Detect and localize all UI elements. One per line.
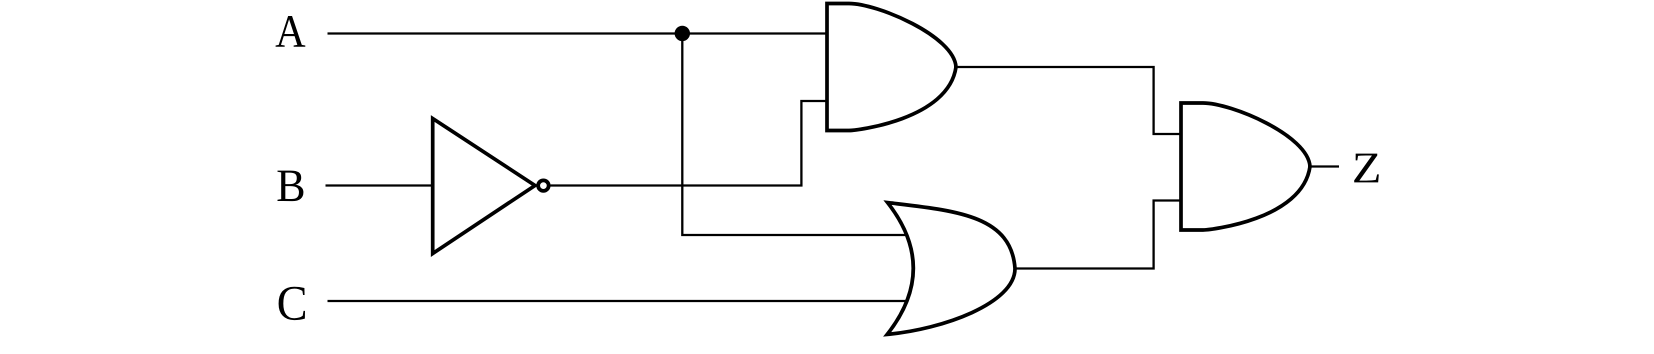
junction dot node A — [675, 26, 690, 41]
wire A — [328, 32, 829, 34]
output label Z — [1354, 154, 1379, 183]
input label C — [279, 287, 305, 320]
wire U2 output to U4 — [954, 67, 1182, 134]
AND gate U4 — [1181, 103, 1310, 230]
AND gate U2 — [827, 4, 956, 131]
inverter U1 triangle — [433, 119, 535, 254]
input label B — [278, 171, 304, 202]
wire U3 output to U4 — [1014, 201, 1182, 269]
wire branch from A to OR gate — [682, 34, 907, 236]
wire output Z — [1308, 165, 1339, 167]
input label A — [276, 16, 306, 47]
wire B — [326, 184, 435, 186]
inverter U1 bubble — [538, 180, 549, 191]
wire C — [328, 300, 908, 302]
wire NOT output to AND U2 — [550, 101, 828, 186]
OR gate U3 — [887, 203, 1015, 335]
